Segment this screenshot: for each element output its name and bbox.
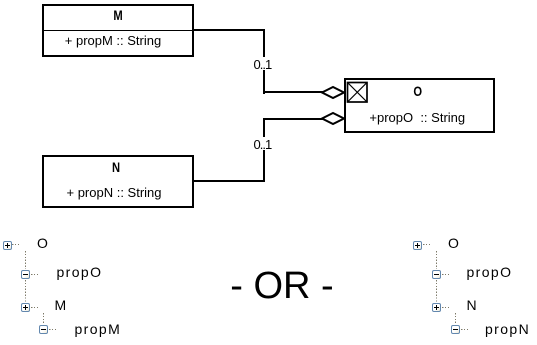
left tree: dots after propM box (49, 329, 57, 330)
class O (344, 78, 496, 133)
multiplicity 0..1 (N side) (253, 137, 273, 150)
right tree: node propN (485, 321, 530, 337)
left tree: node O (37, 235, 49, 251)
wire N to O : horizontal into diamond (263, 118, 325, 120)
right tree: expand box propO (432, 270, 441, 279)
right tree: dots after propO box (442, 274, 450, 275)
right tree: expand box N (432, 303, 441, 312)
right tree: vertical dots O to propO (436, 251, 437, 269)
right tree: expand box propN (451, 325, 460, 334)
left tree: vertical dots propO to M (25, 280, 26, 303)
OR separator text (175, 265, 390, 307)
left tree: vertical dots M to propM (43, 313, 44, 324)
left tree: expand box O (3, 241, 12, 250)
left tree: node M (55, 297, 68, 313)
right tree: dots after N box (442, 307, 450, 308)
left tree: vertical dots O to propO (25, 251, 26, 269)
wire M to O : vertical (263, 29, 265, 94)
multiplicity 0..1 (M side) (253, 57, 273, 70)
right tree: dots after propN box (461, 329, 469, 330)
left tree: expand box propM (39, 325, 48, 334)
left tree: dots after M box (31, 307, 39, 308)
class M (42, 4, 194, 57)
wire N to O : horizontal from N (194, 180, 264, 182)
wire M to O : horizontal into diamond (263, 91, 325, 93)
right tree: vertical dots propO to N (436, 280, 437, 303)
right tree: node O (448, 235, 460, 251)
X icon in class O (346, 81, 368, 103)
wire N to O : vertical (263, 118, 265, 182)
left tree: expand box M (21, 303, 30, 312)
left tree: expand box propO (21, 270, 30, 279)
right tree: node N (467, 297, 479, 313)
aggregation diamond (M-O) (320, 84, 346, 101)
left tree: node propO (57, 264, 103, 280)
class N (42, 155, 194, 208)
left tree: node propM (75, 321, 122, 337)
right tree: expand box O (413, 241, 422, 250)
right tree: node propO (467, 264, 513, 280)
right tree: dots after O box (423, 244, 431, 245)
left tree: dots after O box (12, 244, 20, 245)
left tree: dots after propO box (31, 274, 39, 275)
aggregation diamond (N-O) (320, 110, 346, 127)
wire M to O : horizontal from M (194, 29, 264, 31)
right tree: vertical dots N to propN (455, 313, 456, 324)
